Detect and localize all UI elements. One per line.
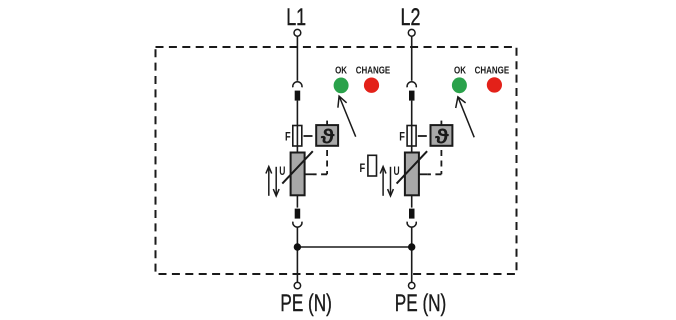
svg-text:L1: L1 [286, 3, 306, 30]
enclosure dashed border [156, 47, 517, 274]
contact block L2 top [409, 91, 415, 101]
mechanical link dashes 1 vertical [326, 150, 328, 174]
disconnect contact arc L1 top [293, 82, 302, 88]
LED red CHANGE 1 [364, 78, 379, 93]
svg-text:F: F [399, 130, 405, 144]
svg-text:CHANGE: CHANGE [475, 64, 510, 75]
thermal monitor U2 tick [440, 121, 442, 126]
mechanical link dashes 1 horizontal [313, 173, 327, 175]
wire L2 bottom [411, 227, 413, 283]
varistor RV1 body [291, 153, 305, 196]
up arrow 2 [380, 167, 386, 196]
down arrow 2 [388, 167, 394, 196]
fuse F3 (in line, branch 2) [407, 126, 416, 147]
svg-text:ϑ: ϑ [321, 125, 335, 148]
svg-text:U: U [394, 166, 400, 179]
wire L2 to fuse [411, 101, 413, 153]
mechanical link dashes 2 vertical [440, 150, 442, 174]
svg-text:F: F [360, 162, 366, 176]
varistor RV2 body [405, 153, 419, 196]
wire through fuse F1 [296, 126, 298, 147]
indicator arrow 2 [456, 97, 475, 137]
svg-text:ϑ: ϑ [435, 125, 449, 148]
PE bus wire [297, 246, 411, 248]
thermal monitor U1 tick [326, 121, 328, 126]
indicator arrow 1 [338, 96, 356, 137]
contact block L1 top [295, 91, 301, 101]
svg-text:OK: OK [454, 64, 466, 75]
mechanical link dashes 2 horizontal [427, 173, 441, 175]
LED red CHANGE 2 [487, 77, 502, 92]
varistor RV1 side tick [305, 173, 313, 175]
svg-text:CHANGE: CHANGE [356, 64, 391, 75]
contact block L1 bottom [295, 209, 301, 219]
contact block L2 bottom [409, 209, 415, 219]
up arrow 1 [266, 167, 272, 196]
varistor RV2 diagonal [397, 151, 428, 183]
varistor RV2 side tick [419, 173, 427, 175]
svg-text:L2: L2 [401, 3, 421, 30]
svg-text:U: U [279, 166, 285, 179]
LED green OK 2 [452, 77, 467, 93]
disconnect contact arc L1 bottom [293, 222, 302, 228]
wire varistor1 to block [296, 195, 298, 207]
terminal L2 [408, 29, 415, 36]
LED green OK 1 [334, 78, 349, 94]
junction node 2 [408, 243, 415, 250]
terminal PE1 [294, 282, 300, 288]
wire varistor2 to block [411, 195, 413, 207]
fuse F1 (thermal disconnect fuse, in line) [293, 126, 302, 147]
varistor RV1 diagonal [282, 151, 313, 183]
link fuse F1 to thermal monitor [304, 135, 313, 137]
thermal monitor U1 (theta box) [316, 125, 338, 146]
down arrow 1 [273, 167, 279, 196]
svg-text:OK: OK [335, 64, 347, 75]
svg-text:PE (N): PE (N) [280, 290, 331, 316]
wire L1 top [296, 36, 298, 81]
disconnect contact arc L2 bottom [407, 222, 416, 228]
thermal monitor U2 (theta box) [431, 125, 453, 146]
disconnect contact arc L2 top [407, 82, 416, 88]
wire L2 top [411, 36, 413, 81]
wire L1 bottom [296, 227, 298, 283]
link fuse F3 to thermal monitor 2 [418, 135, 427, 137]
fuse F2 external box [368, 155, 377, 176]
terminal L1 [294, 29, 301, 36]
terminal PE2 [409, 282, 415, 288]
svg-text:PE (N): PE (N) [395, 290, 446, 316]
wire through fuse F3 [411, 126, 413, 147]
wire L1 to fuse [296, 101, 298, 153]
junction node 1 [294, 243, 301, 250]
svg-text:F: F [285, 130, 291, 144]
